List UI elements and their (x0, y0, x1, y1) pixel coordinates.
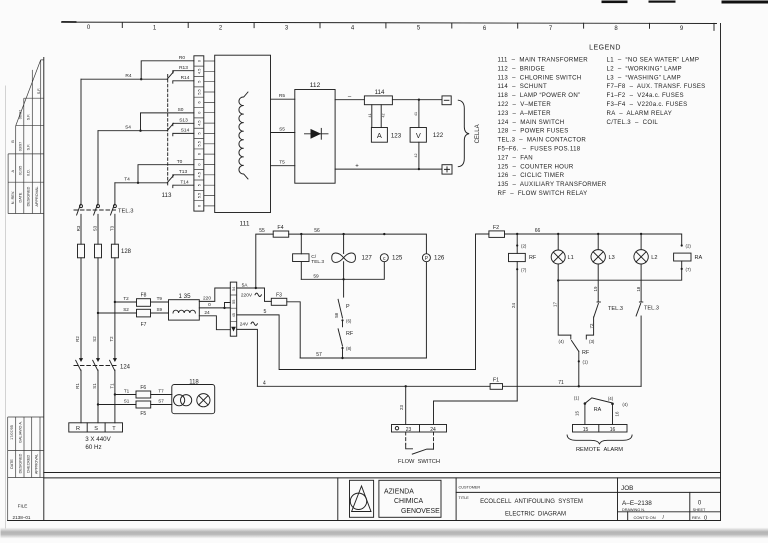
contd divider (627, 512, 629, 521)
svg-text:F3: F3 (276, 293, 282, 299)
svg-text:16: 16 (610, 427, 616, 433)
svg-text:RF – FLOW SWITCH RELAY: RF – FLOW SWITCH RELAY (498, 190, 588, 197)
svg-text:0: 0 (197, 60, 201, 62)
svg-text:TEL.3 – MAIN CONTACTOR: TEL.3 – MAIN CONTACTOR (498, 137, 587, 144)
terminal block R S T (69, 423, 123, 432)
job bottom row line (618, 511, 721, 513)
svg-text:(8): (8) (346, 346, 352, 351)
wire S to fuse (97, 214, 99, 244)
svg-text:5.5: 5.5 (197, 193, 201, 198)
main switch 124 pole S (96, 358, 100, 362)
svg-text:S1: S1 (124, 399, 130, 404)
svg-text:AZIENDA: AZIENDA (384, 488, 414, 495)
svg-text:T14: T14 (180, 180, 189, 186)
svg-text:T0: T0 (177, 159, 183, 165)
svg-text:S: S (94, 426, 98, 432)
svg-text:F7–F8 – AUX. TRANSF. FUSES: F7–F8 – AUX. TRANSF. FUSES (607, 83, 706, 90)
lamp L2 (640, 234, 642, 250)
remote alarm contact RA (584, 402, 587, 405)
svg-text:GENOVESE: GENOVESE (401, 508, 440, 515)
svg-text:RF: RF (346, 331, 354, 337)
wire R phase upper vertical (80, 79, 82, 204)
wire R to fuse (80, 214, 82, 244)
svg-text:N. REV.: N. REV. (11, 191, 15, 204)
svg-text:42: 42 (414, 154, 418, 158)
wire S9 (151, 312, 169, 314)
wire 126 bottom to 57 (425, 262, 427, 358)
wire TEL.3 no2 down (640, 316, 642, 386)
svg-text:220V: 220V (241, 293, 253, 299)
scan artifact top blob 1 (602, 1, 628, 4)
node on 57 (341, 357, 343, 359)
svg-text:RF: RF (582, 350, 590, 356)
svg-text:71: 71 (558, 380, 564, 386)
terminal minus box (442, 96, 451, 105)
wire L3 down to TEL.3 contact (597, 264, 599, 302)
svg-text:R0: R0 (179, 55, 185, 61)
customer divider (455, 478, 457, 521)
lamp unit 118 box (172, 385, 215, 414)
svg-text:23: 23 (406, 427, 412, 433)
svg-text:23: 23 (399, 405, 404, 410)
border bottom line (8, 520, 721, 522)
svg-text:TEL.3: TEL.3 (608, 306, 623, 312)
svg-text:CONT'D ON: CONT'D ON (634, 515, 656, 520)
svg-text:(7): (7) (521, 267, 527, 272)
svg-text:(6): (6) (346, 318, 352, 323)
svg-text:55: 55 (259, 228, 265, 234)
svg-text:06/97: 06/97 (19, 110, 23, 120)
svg-text:T3: T3 (110, 225, 115, 231)
wire 59 (301, 262, 384, 279)
node fan branch (342, 233, 344, 235)
svg-text:REMOTE ALARM: REMOTE ALARM (576, 447, 623, 453)
lamp L3 (597, 234, 599, 250)
brace remote alarm (567, 435, 632, 444)
svg-text:CHECKED: CHECKED (26, 454, 30, 473)
wire T1 to fuse F6 (115, 394, 136, 396)
svg-text:3 X 440V: 3 X 440V (85, 436, 111, 443)
svg-text:S.F.: S.F. (37, 88, 41, 95)
svg-text:(7): (7) (686, 267, 692, 272)
svg-text:CUSTOMER: CUSTOMER (459, 486, 481, 490)
svg-text:24: 24 (511, 303, 516, 308)
main switch 124 pole T (113, 358, 117, 362)
svg-text:V: V (416, 131, 421, 140)
svg-text:15: 15 (583, 427, 589, 433)
svg-text:118: 118 (189, 380, 199, 386)
wire 15 (584, 404, 586, 425)
svg-text:T1: T1 (124, 389, 130, 394)
svg-text:F1–F2 – V24a.c. FUSES: F1–F2 – V24a.c. FUSES (607, 92, 684, 99)
wire L2 down to TEL.3 contact (640, 264, 642, 302)
svg-text:R13: R13 (179, 65, 188, 71)
transformer 135 coil (173, 310, 195, 313)
wire 0 jog (225, 303, 231, 308)
fuse F8 (137, 299, 151, 307)
svg-text:FILE: FILE (18, 504, 28, 509)
svg-text:54: 54 (232, 287, 236, 291)
remote alarm terminal block (573, 425, 628, 433)
node T2 branch (114, 301, 116, 303)
svg-text:5: 5 (197, 132, 201, 134)
flow switch terminal block (392, 425, 447, 433)
svg-text:REV.: REV. (692, 515, 701, 520)
svg-text:A: A (377, 131, 382, 140)
scan artifact top blob 3 (722, 1, 768, 4)
svg-text:L3: L3 (609, 255, 615, 261)
node T1 branch (114, 393, 116, 395)
svg-text:S2: S2 (92, 336, 97, 342)
brace cella (458, 100, 469, 167)
node contact 2 ra (681, 244, 683, 246)
svg-text:F7: F7 (141, 322, 147, 328)
svg-text:S1: S1 (92, 383, 97, 389)
svg-text:F3–F4 – V220a.c. FUSES: F3–F4 – V220a.c. FUSES (607, 101, 688, 108)
contactor TEL.3 pole S (97, 205, 100, 208)
fuse 128 T (111, 244, 118, 258)
svg-text:01/95: 01/95 (19, 166, 23, 176)
wire RF down to 57 (342, 348, 344, 358)
svg-text:118 – LAMP “POWER ON”: 118 – LAMP “POWER ON” (498, 92, 581, 99)
wire RF common (578, 351, 580, 386)
sine 220V (255, 293, 261, 296)
terminal strip of transformer 111 (194, 56, 204, 211)
svg-text:P: P (346, 304, 350, 310)
svg-text:16: 16 (615, 411, 620, 416)
118 lamp circle (197, 394, 210, 407)
svg-text:60 Hz: 60 Hz (85, 444, 101, 451)
svg-text:(3): (3) (589, 339, 595, 344)
coil C/TEL.3 (293, 254, 309, 262)
svg-text:59: 59 (313, 274, 319, 280)
wire T7 (151, 394, 172, 396)
wire bridge plus to plus terminal (335, 168, 442, 170)
node L1 bottom (557, 279, 559, 281)
wire 66 (505, 234, 682, 245)
wire T2 to fuse F8 (115, 301, 137, 303)
wire V-meter top (418, 100, 420, 128)
wire T to fuse (114, 214, 116, 244)
svg-text:R1: R1 (75, 383, 80, 389)
svg-text:126: 126 (434, 255, 445, 262)
node V-meter tap bottom (418, 168, 420, 170)
wire T0 (138, 165, 194, 183)
svg-text:4.5: 4.5 (197, 120, 201, 125)
svg-text:T5: T5 (279, 160, 285, 166)
legend left column (498, 57, 607, 198)
svg-text:S14: S14 (181, 128, 190, 134)
svg-text:DATE: DATE (10, 459, 14, 469)
wire RF coil down to flow switch 24 (516, 262, 518, 401)
svg-text:123: 123 (391, 133, 402, 140)
bottom-left table grid (8, 417, 44, 521)
aux transformer 135 box (169, 300, 200, 320)
ciclic timer 126 (422, 254, 430, 262)
svg-text:58: 58 (334, 312, 339, 317)
wire 24 from terminal up (434, 401, 518, 425)
svg-text:128: 128 (121, 249, 132, 255)
svg-text:S5: S5 (279, 127, 285, 133)
svg-text:T2: T2 (109, 336, 114, 342)
svg-text:R5: R5 (279, 93, 285, 99)
svg-text:122 – V–METER: 122 – V–METER (498, 101, 552, 108)
svg-text:4.5: 4.5 (197, 172, 201, 177)
wire R 124 to terminal (80, 370, 82, 423)
company box (379, 480, 441, 517)
wire R4 (81, 78, 167, 80)
revision table grid (top-left) (8, 60, 44, 214)
node L1 branch (557, 233, 559, 235)
svg-text:41: 41 (368, 114, 372, 118)
svg-text:123 – A–METER: 123 – A–METER (498, 110, 552, 117)
node RF coil branch (516, 233, 518, 235)
contact tick 4 (570, 335, 572, 339)
strip arrow cell (231, 327, 236, 332)
node S2 branch (97, 312, 99, 314)
svg-text:R2: R2 (75, 336, 80, 342)
svg-text:L3 – “WASHING” LAMP: L3 – “WASHING” LAMP (607, 74, 681, 81)
wire T14 (173, 184, 194, 186)
lamp L1 (557, 234, 559, 250)
svg-text:C/TEL.3 – COIL: C/TEL.3 – COIL (607, 119, 659, 126)
svg-text:L2 – “WORKING” LAMP: L2 – “WORKING” LAMP (607, 65, 682, 72)
svg-text:B: B (11, 140, 15, 143)
svg-text:24V: 24V (240, 322, 249, 328)
svg-text:RF: RF (529, 255, 537, 261)
main switch 124 pole R (79, 358, 83, 362)
svg-text:1 35: 1 35 (178, 293, 191, 300)
svg-text:03/97: 03/97 (19, 142, 23, 152)
terminal strip stubs to transformer (204, 61, 215, 206)
svg-text:RA – ALARM RELAY: RA – ALARM RELAY (607, 110, 673, 117)
svg-text:F2: F2 (493, 225, 499, 231)
svg-text:APPROVAL: APPROVAL (34, 454, 38, 474)
title strip top line (44, 477, 721, 479)
chlorine switch 113 blade S (167, 123, 173, 130)
svg-text:72: 72 (589, 323, 594, 328)
svg-text:F5–F6. – FUSES POS.118: F5–F6. – FUSES POS.118 (498, 146, 581, 153)
svg-text:RA: RA (695, 255, 703, 261)
svg-text:17: 17 (552, 302, 557, 307)
svg-text:124 – MAIN SWITCH: 124 – MAIN SWITCH (498, 119, 565, 126)
svg-text:127: 127 (362, 255, 373, 262)
svg-text:0: 0 (208, 302, 211, 308)
node S0/S4 junction (139, 130, 141, 132)
svg-text:66: 66 (535, 228, 541, 234)
fuse F7 (137, 309, 151, 317)
svg-text:(4): (4) (559, 339, 565, 344)
logo circle (350, 493, 366, 509)
svg-text:41: 41 (414, 112, 418, 116)
svg-text:5.5: 5.5 (197, 141, 201, 146)
bridge 112 box (295, 90, 335, 184)
node 125 branch (383, 233, 385, 235)
terminal plus box (442, 165, 452, 174)
node contact 6 (341, 319, 343, 321)
svg-text:57: 57 (316, 352, 322, 358)
svg-text:(2): (2) (521, 244, 527, 249)
node 55 junction (255, 287, 257, 289)
wire S fuse to switch 124 (97, 258, 99, 359)
wire 57 (300, 357, 426, 359)
node contact 8 (341, 347, 343, 349)
contactor TEL.3 dashed link (74, 209, 116, 211)
svg-text:S.F.: S.F. (27, 144, 31, 151)
svg-text:113: 113 (162, 192, 172, 199)
contact TEL.3 no1 blade (594, 304, 599, 318)
svg-text:6: 6 (197, 153, 201, 155)
wire 17 (558, 281, 571, 336)
revision table diagonal (16, 60, 41, 126)
svg-text:S13: S13 (179, 118, 188, 124)
wire S4 (98, 130, 167, 132)
svg-text:T9: T9 (157, 296, 163, 301)
wire F3 out down to 57 (287, 302, 300, 358)
node contact 7 ra (681, 268, 683, 270)
wire 24V to wire 4 (237, 329, 258, 386)
wire S2 to fuse F7 (98, 312, 137, 314)
svg-text:F8: F8 (141, 293, 147, 299)
wire R14 (173, 80, 194, 82)
ruler line (62, 22, 717, 23)
svg-text:L1: L1 (568, 255, 574, 261)
wire fan top (343, 234, 345, 253)
switch 124 dashed link (74, 365, 116, 367)
svg-text:5.5: 5.5 (197, 89, 201, 94)
fuse F6 (136, 391, 151, 398)
fuse F2 (489, 231, 505, 238)
ruler ticks (122, 23, 714, 31)
wire 5 (24V feed) (237, 315, 476, 370)
contactor TEL.3 pole R (80, 205, 83, 208)
svg-text:DESIGNED: DESIGNED (18, 453, 22, 473)
svg-text:APPROVAL: APPROVAL (35, 186, 39, 206)
svg-text:TEL.3: TEL.3 (644, 306, 659, 312)
switch 113 dashed link (167, 75, 169, 188)
wire T5 (271, 165, 295, 167)
svg-text:R4: R4 (125, 73, 131, 79)
wire 55 riser (256, 234, 273, 288)
svg-text:T4: T4 (124, 177, 130, 183)
svg-text:0: 0 (197, 112, 201, 114)
wire T4 (115, 182, 167, 184)
node RF common on 71 (578, 385, 580, 387)
svg-text:(4): (4) (608, 396, 614, 401)
node flow switch 23 branch (405, 385, 407, 387)
switch RF blade (338, 329, 342, 346)
terminal strip labels (197, 60, 201, 207)
wire bridge minus to schunt (335, 99, 364, 101)
aux terminal strip (230, 282, 236, 336)
svg-text:125 – COUNTER HOUR: 125 – COUNTER HOUR (498, 163, 574, 170)
svg-text:ELECTRIC DIAGRAM: ELECTRIC DIAGRAM (505, 512, 566, 518)
svg-text:R14: R14 (181, 75, 190, 81)
svg-text:T7: T7 (158, 389, 164, 394)
node contact 2 rf (516, 244, 518, 246)
customer row line (456, 491, 720, 493)
svg-text:5: 5 (264, 309, 267, 315)
sine 24V (251, 322, 257, 325)
flow switch dashed leads (406, 432, 434, 444)
main transformer 111 box (215, 55, 271, 212)
wire S 124 to terminal (97, 370, 99, 423)
fuse 128 S (95, 244, 102, 258)
wire 220V to F3 (237, 288, 272, 301)
svg-text:F6: F6 (140, 385, 146, 391)
svg-text:(1): (1) (574, 395, 580, 400)
wire V-meter bottom (418, 142, 420, 169)
svg-text:S0: S0 (178, 107, 184, 113)
fuse 128 R (78, 244, 85, 258)
svg-text:T13: T13 (179, 169, 188, 175)
flow switch contact (406, 444, 413, 449)
svg-text:122: 122 (433, 132, 444, 139)
svg-text:TEL.3: TEL.3 (311, 259, 324, 265)
counter hour 125 (380, 254, 388, 262)
wire T13 (173, 174, 194, 176)
svg-text:S4: S4 (125, 125, 131, 131)
svg-text:(4): (4) (622, 402, 628, 407)
svg-text:55: 55 (232, 300, 236, 304)
wire RA coil bottom (558, 261, 682, 280)
logo box (350, 480, 374, 517)
chlorine switch 113 blade T (167, 175, 173, 182)
svg-text:114: 114 (375, 89, 385, 96)
svg-text:R: R (76, 426, 80, 432)
node L2 branch (640, 233, 642, 235)
contactor TEL.3 pole T (113, 205, 116, 208)
wire 23 down to terminal (405, 386, 407, 424)
svg-text:17/07/95: 17/07/95 (10, 425, 14, 440)
svg-text:L2: L2 (651, 255, 657, 261)
118 transformer circles (174, 395, 185, 406)
svg-text:128 – POWER FUSES: 128 – POWER FUSES (498, 128, 569, 135)
legend right column (607, 57, 706, 126)
job divider (617, 478, 619, 521)
svg-text:FLOW SWITCH: FLOW SWITCH (398, 459, 440, 465)
svg-text:F1: F1 (493, 378, 499, 384)
svg-text:113 – CHLORINE SWITCH: 113 – CHLORINE SWITCH (498, 74, 582, 81)
border right vertical (720, 24, 722, 521)
svg-text:6: 6 (197, 205, 201, 207)
svg-text:5: 5 (197, 81, 201, 83)
svg-text:ECOLCELL ANTIFOULING SYSTEM: ECOLCELL ANTIFOULING SYSTEM (480, 499, 583, 505)
svg-text:T: T (112, 426, 116, 432)
wire S phase upper vertical (97, 131, 99, 205)
wire coil top (300, 234, 302, 254)
node V-meter tap top (418, 99, 420, 101)
ruler left end thick dash (62, 21, 77, 23)
svg-text:TITLE: TITLE (459, 496, 470, 500)
svg-text:114 – SCHUNT: 114 – SCHUNT (498, 83, 547, 90)
svg-text:18: 18 (636, 286, 641, 291)
fuse F4 (273, 231, 289, 237)
wire 24 output (199, 316, 230, 330)
wire fan bottom (343, 262, 345, 297)
svg-text:24: 24 (204, 310, 210, 316)
svg-text:DESIGNED: DESIGNED (27, 186, 31, 206)
svg-text:126 – CICLIC TIMER: 126 – CICLIC TIMER (498, 172, 565, 179)
wire S0 (141, 113, 194, 131)
wire coil bottom (300, 262, 302, 280)
svg-text:19: 19 (593, 286, 598, 291)
node coil branch (300, 233, 302, 235)
svg-text:0.D.: 0.D. (27, 169, 31, 176)
wire 56 (289, 234, 427, 253)
wire schunt to minus terminal (392, 99, 442, 101)
A-meter 123 box (371, 128, 387, 143)
